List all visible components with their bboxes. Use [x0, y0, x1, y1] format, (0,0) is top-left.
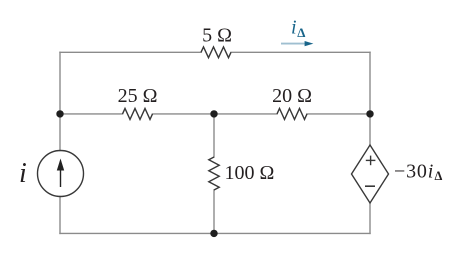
wire middle vertical lower segment [213, 190, 215, 233]
wire middle-center horizontal segment [153, 113, 278, 115]
independent current source (circle) [38, 151, 84, 197]
node dot right-middle junction [366, 110, 373, 117]
svg-text:−30iΔ: −30iΔ [394, 161, 443, 184]
resistor 100 ohm (vertical) [209, 157, 219, 190]
resistor 20 ohm [277, 108, 307, 119]
svg-text:25 Ω: 25 Ω [118, 85, 158, 107]
dependent voltage source (diamond) [352, 145, 389, 203]
wire left vertical lower segment [59, 197, 61, 234]
wire right vertical lower segment [369, 203, 371, 233]
svg-text:i: i [291, 17, 297, 39]
resistor 25 ohm [123, 108, 153, 119]
wire middle vertical upper segment [213, 114, 215, 157]
svg-text:20 Ω: 20 Ω [272, 85, 312, 107]
current source arrow [57, 159, 64, 188]
node dot left-middle junction [56, 110, 63, 117]
node dot bottom-center junction [210, 230, 217, 237]
current arrow i-delta (shaft) [281, 43, 306, 45]
resistor 5 ohm (top) [201, 47, 231, 58]
svg-text:100 Ω: 100 Ω [225, 162, 275, 184]
wire top-left horizontal segment [60, 51, 201, 53]
wire left vertical upper segment [59, 52, 61, 150]
wire middle-right horizontal segment [307, 113, 370, 115]
wire right vertical upper segment [369, 52, 371, 145]
plus sign inside diamond [366, 156, 376, 166]
minus sign inside diamond [365, 185, 375, 187]
wire bottom horizontal segment [60, 232, 370, 234]
wire middle-left horizontal segment [60, 113, 123, 115]
svg-text:i: i [19, 158, 27, 189]
wire top-right horizontal segment [231, 51, 370, 53]
svg-text:5 Ω: 5 Ω [202, 25, 232, 47]
svg-text:Δ: Δ [297, 25, 305, 40]
current arrow i-delta (head) [305, 41, 314, 46]
node dot center-middle junction [210, 110, 217, 117]
label i-delta [291, 17, 305, 40]
